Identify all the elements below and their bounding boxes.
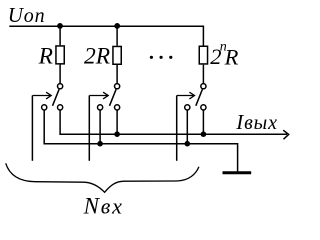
switch S2 right throw contact: [115, 105, 120, 110]
wire: R3 to switch S3: [202, 65, 204, 84]
resistor R1 body: [56, 46, 64, 64]
switch S2 control arrow: [89, 92, 108, 99]
switch S2 pole contact: [115, 84, 120, 89]
wire: R2 to switch S2: [116, 65, 118, 84]
node: rail junction at branch 2: [114, 23, 120, 29]
node: S2 right contact on output bus: [114, 131, 120, 137]
ground symbol: [223, 171, 252, 174]
resistor R2 body: [113, 46, 121, 64]
node: rail junction at branch 1: [57, 23, 63, 29]
switch S2 left throw contact: [98, 105, 103, 110]
switch S1 right throw contact: [58, 105, 63, 110]
resistor R3 body: [199, 46, 207, 64]
node: S2 left contact on ground bus: [97, 141, 103, 147]
switch S3 blade: [196, 89, 203, 106]
wire: Uop supply rail with corner down to R3: [9, 26, 203, 46]
brace: grouping of digital input lines: [6, 163, 199, 192]
svg-text:R: R: [224, 44, 239, 69]
switch S3 left throw contact: [185, 105, 190, 110]
svg-text:2R: 2R: [84, 43, 110, 69]
wire: S1 left contact to ground bus, runs to ground symbol: [44, 110, 237, 172]
wire: S2 left contact drop: [99, 110, 101, 144]
svg-text:Iвых: Iвых: [235, 110, 278, 134]
node: S3 left contact on ground bus: [185, 141, 191, 147]
switch S3 control arrow: [177, 92, 195, 99]
wire: S1 right contact to output bus Ivych with arrow: [60, 110, 287, 134]
svg-text:Nвх: Nвх: [83, 193, 124, 218]
switch S1 left throw contact: [42, 105, 47, 110]
switch S2 control line (digital input): [88, 96, 90, 161]
switch S3 pole contact: [201, 84, 206, 89]
switch S1 control line (digital input): [31, 96, 33, 161]
wire: S3 right contact drop: [202, 110, 204, 134]
switch S1 control arrow: [32, 92, 51, 99]
switch S3 right throw contact: [201, 105, 206, 110]
switch S2 blade: [110, 89, 117, 106]
svg-text:Uоп: Uоп: [8, 3, 46, 27]
wire: rail to R2: [116, 26, 118, 46]
svg-text:R: R: [38, 44, 53, 70]
wire: S3 left contact drop: [186, 110, 188, 144]
ellipsis: omitted branches: [150, 56, 173, 59]
wire: rail to R1: [59, 26, 61, 45]
wire: R1 to switch S1: [59, 65, 61, 84]
switch S1 pole contact: [58, 84, 63, 89]
arrowhead: Ivych output arrow: [283, 130, 289, 139]
switch S1 blade: [53, 89, 60, 106]
switch S3 control line (digital input): [176, 96, 178, 161]
node: S3 right contact on output bus: [201, 131, 207, 137]
label R3 value: 2^n R: [210, 40, 238, 70]
wire: S2 right contact drop: [116, 110, 118, 134]
